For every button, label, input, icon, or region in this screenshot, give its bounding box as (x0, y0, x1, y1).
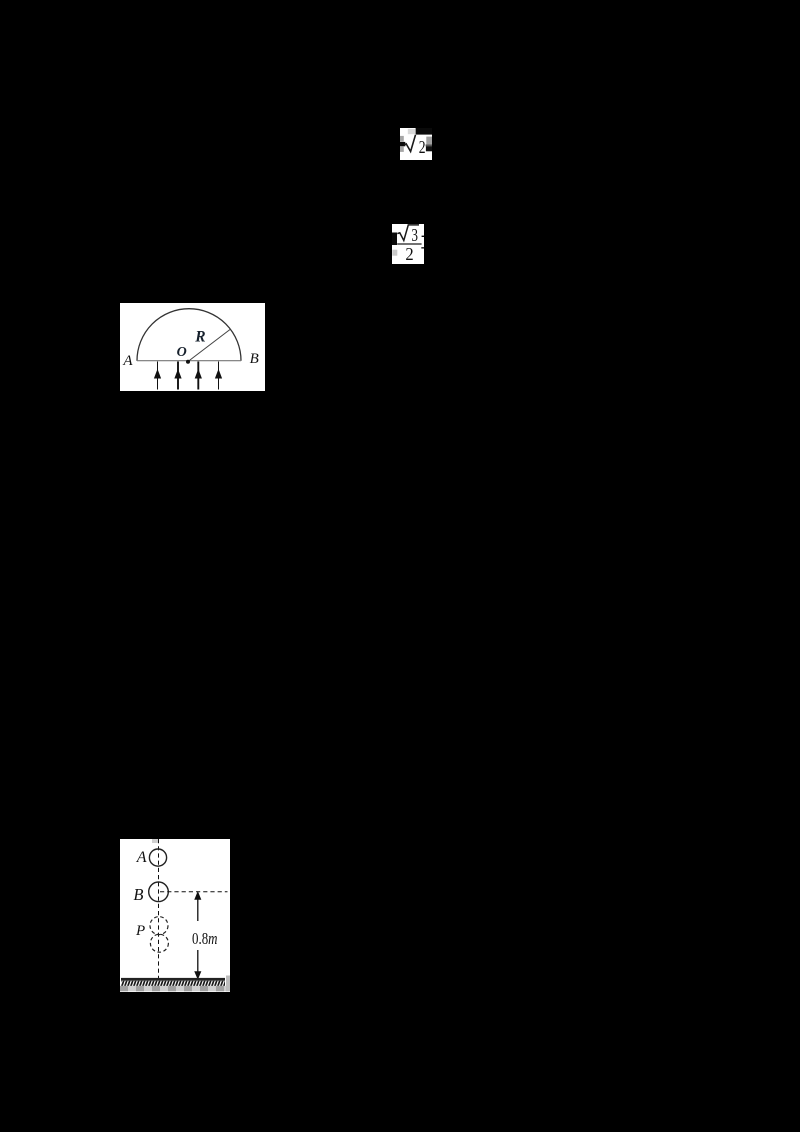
svg-text:R: R (194, 329, 205, 346)
svg-text:3: 3 (411, 225, 418, 245)
svg-text:B: B (133, 885, 143, 904)
svg-text:2: 2 (405, 244, 413, 264)
svg-text:A: A (122, 353, 133, 369)
svg-text:2: 2 (419, 137, 426, 157)
svg-text:0.8m: 0.8m (192, 929, 218, 948)
svg-text:B: B (250, 351, 259, 367)
svg-text:O: O (177, 345, 187, 360)
svg-text:A: A (136, 849, 147, 866)
svg-text:P: P (135, 923, 145, 939)
